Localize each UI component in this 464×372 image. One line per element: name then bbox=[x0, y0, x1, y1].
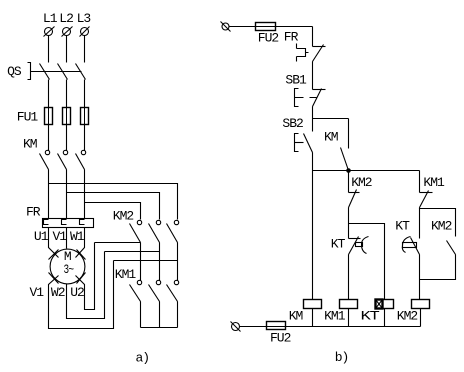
svg-text:V1: V1 bbox=[30, 285, 45, 300]
svg-text:W2: W2 bbox=[51, 285, 65, 300]
wire branch phase2 to KM2 pole2 bbox=[67, 193, 160, 220]
wire FR to motor U1 bbox=[49, 228, 59, 258]
svg-text:FR: FR bbox=[284, 30, 299, 45]
contactor KM main contact pole1 bbox=[40, 150, 50, 169]
button SB1 NC stop bbox=[295, 89, 326, 107]
svg-text:FU2: FU2 bbox=[258, 31, 279, 46]
svg-text:SB2: SB2 bbox=[282, 116, 303, 131]
timer KT delayed NC contact bbox=[349, 237, 369, 255]
wire L3 to QS bbox=[84, 36, 86, 63]
wire QS to FU1 pole1 bbox=[48, 80, 50, 108]
wire KM2 pole2 to KM1 pole2 bbox=[159, 243, 161, 281]
wire branch SB1 to KM aux bbox=[313, 118, 349, 120]
wire FU2 to FR contact bbox=[312, 27, 314, 47]
wire FR to motor W1 bbox=[76, 228, 85, 258]
fuse FU1 pole1 bbox=[45, 108, 53, 125]
wire rail corner to KM1 NC bbox=[419, 171, 421, 193]
wire KM to FR pole3 bbox=[84, 170, 86, 219]
svg-text:L3: L3 bbox=[77, 11, 91, 26]
switch QS bbox=[28, 63, 86, 80]
svg-text:FU1: FU1 bbox=[17, 109, 39, 124]
svg-text:FR: FR bbox=[26, 205, 41, 220]
svg-text:KM2: KM2 bbox=[113, 208, 134, 223]
contactor KM1 contact pole1 bbox=[130, 280, 142, 301]
wire KM1 pole1 to star bar bbox=[140, 302, 142, 328]
wire branch to KT coil bbox=[349, 224, 385, 300]
terminal L3 bbox=[80, 27, 90, 37]
svg-text:KT: KT bbox=[361, 309, 381, 324]
wire FU1 to KM pole1 bbox=[48, 125, 50, 151]
svg-text:KM: KM bbox=[324, 129, 338, 144]
wire SB2 to rail bbox=[312, 153, 314, 171]
coil KM bbox=[304, 300, 322, 309]
svg-text:QS: QS bbox=[7, 64, 22, 79]
wire rail to KM coil bbox=[312, 171, 314, 300]
wire FR to motor V1 bbox=[66, 228, 68, 249]
wire L1 to QS bbox=[48, 36, 50, 63]
wire KM1 pole2 to star bar bbox=[159, 302, 161, 328]
wire star point bar bbox=[141, 327, 178, 329]
wire FU1 to KM pole2 bbox=[66, 125, 68, 151]
wire FU1 to KM pole3 bbox=[84, 125, 86, 151]
wire KM2 coil to bottom rail bbox=[420, 309, 422, 327]
coil KM2 bbox=[412, 300, 430, 309]
wire KM2 NC to KT NC branch point bbox=[348, 208, 350, 239]
wire L2 to QS bbox=[66, 36, 68, 63]
contactor KM2 contact pole1 bbox=[130, 220, 142, 242]
wire bottom rail bbox=[240, 326, 421, 328]
svg-text:W1: W1 bbox=[70, 229, 85, 244]
svg-text:KT: KT bbox=[331, 237, 346, 252]
wire FR to SB1 bbox=[312, 62, 314, 90]
contactor KM main contact pole3 bbox=[76, 150, 86, 169]
wire KM2 NO to rejoin bbox=[420, 255, 456, 280]
wire KM2 pole1 to KM1 pole1 bbox=[140, 243, 142, 281]
wire U2 branch to KM2 pole1 bbox=[95, 242, 141, 244]
wire rail node row bbox=[313, 170, 420, 172]
wire W2 branch to KM2 pole2 bbox=[105, 251, 160, 253]
svg-text:KM1: KM1 bbox=[423, 175, 445, 190]
wire KM aux branch down bbox=[348, 119, 350, 149]
wire KM2 pole3 to KM1 pole3 bbox=[177, 243, 179, 281]
coil KT timer bbox=[376, 300, 394, 309]
svg-text:KM2: KM2 bbox=[397, 309, 418, 324]
svg-text:KM2: KM2 bbox=[351, 175, 372, 190]
contactor KM1 contact pole3 bbox=[167, 280, 179, 301]
wire terminal to FU2 top bbox=[230, 26, 313, 28]
svg-text:KM1: KM1 bbox=[324, 309, 346, 324]
wire rail to KM2 NC bbox=[348, 171, 350, 193]
wire motor V1 bottom to KM2 pole3 branch bbox=[49, 261, 114, 329]
wire SB1 to SB2 bbox=[312, 107, 314, 132]
motor M 3-phase bbox=[49, 249, 86, 284]
svg-text:KT: KT bbox=[395, 219, 410, 234]
svg-text:L2: L2 bbox=[59, 11, 73, 26]
contactor KM2 contact pole3 bbox=[167, 220, 179, 242]
svg-text:KM1: KM1 bbox=[115, 267, 137, 282]
contactor KM1 contact pole2 bbox=[149, 280, 161, 301]
coil KM1 bbox=[340, 300, 358, 309]
svg-text:3~: 3~ bbox=[64, 262, 75, 277]
junction dot KM aux rail bbox=[346, 168, 351, 173]
contact KM2 NC interlock bbox=[349, 190, 360, 208]
terminal L2 bbox=[62, 27, 73, 37]
svg-text:FU2: FU2 bbox=[270, 331, 291, 346]
wire motor U2 to KM2 pole1 branch bbox=[76, 243, 95, 310]
fuse FU2 top bbox=[256, 23, 276, 31]
contact KM1 NC interlock bbox=[420, 191, 433, 208]
wire KM to FR pole2 bbox=[66, 170, 68, 219]
wire branch phase1 to KM2 pole3 bbox=[49, 184, 178, 220]
contactor KM main contact pole2 bbox=[58, 150, 68, 169]
contact KM aux NO self-holding bbox=[341, 148, 349, 171]
svg-text:U2: U2 bbox=[70, 285, 84, 300]
fuse FU1 pole3 bbox=[81, 108, 89, 125]
wire KT NO to KM2 coil bbox=[419, 255, 421, 300]
fuse FU1 pole2 bbox=[63, 108, 71, 125]
wire KM1 NC to KT NO bbox=[419, 209, 421, 239]
thermal relay FR heater block bbox=[43, 219, 94, 228]
wire branch phase3 to KM2 pole1 bbox=[85, 203, 141, 220]
svg-text:SB1: SB1 bbox=[285, 72, 307, 87]
wire QS to FU1 pole2 bbox=[66, 80, 68, 108]
terminal L1 bbox=[44, 27, 55, 37]
svg-text:U1: U1 bbox=[34, 229, 49, 244]
wire KT NC to KM1 coil bbox=[348, 255, 350, 300]
contact KM2 NO parallel bbox=[447, 241, 456, 255]
wire KM to FR pole1 bbox=[48, 170, 50, 219]
svg-text:KM2: KM2 bbox=[431, 219, 452, 234]
wire V1 branch to KM2 pole3 bbox=[114, 260, 178, 262]
wire KM1 NC junction bar to KM2 NO branch bbox=[420, 208, 456, 237]
terminal control bottom bbox=[231, 322, 241, 332]
wire KM1 pole3 to star bar bbox=[177, 302, 179, 328]
fuse FU2 bottom bbox=[267, 322, 286, 330]
svg-text:a): a) bbox=[136, 351, 150, 366]
wire motor W2 to KM2 pole2 branch bbox=[67, 252, 105, 319]
button SB2 NO start bbox=[295, 134, 313, 153]
wire KT coil to bottom rail bbox=[384, 309, 386, 327]
svg-text:KM: KM bbox=[23, 137, 37, 152]
svg-text:KM: KM bbox=[289, 309, 303, 324]
wire QS to FU1 pole3 bbox=[84, 80, 86, 108]
svg-text:b): b) bbox=[335, 350, 349, 365]
wire KM coil to bottom rail bbox=[312, 309, 314, 327]
wire KM1 coil to bottom rail bbox=[348, 309, 350, 327]
timer KT delayed NO contact bbox=[402, 237, 419, 255]
terminal control top bbox=[221, 22, 231, 32]
thermal relay FR NC contact bbox=[297, 44, 326, 62]
svg-text:L1: L1 bbox=[43, 11, 58, 26]
svg-text:V1: V1 bbox=[53, 229, 68, 244]
contactor KM2 contact pole2 bbox=[149, 220, 161, 242]
